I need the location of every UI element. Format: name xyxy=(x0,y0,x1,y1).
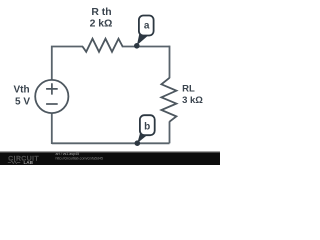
node a junction dot xyxy=(134,43,140,49)
svg-text:3 kΩ: 3 kΩ xyxy=(182,95,203,106)
svg-text:Vth: Vth xyxy=(13,85,29,96)
wire top-right segment xyxy=(122,46,170,48)
node b junction dot xyxy=(135,140,141,146)
node b callout tail xyxy=(137,131,147,143)
svg-text:R th: R th xyxy=(91,7,111,18)
svg-text:a: a xyxy=(144,21,150,32)
wire right vertical upper xyxy=(169,46,171,79)
svg-text:RL: RL xyxy=(182,83,195,94)
svg-text:LAB: LAB xyxy=(24,160,34,165)
voltage source V1 circle xyxy=(35,80,68,113)
node a callout tail xyxy=(137,32,147,45)
svg-text:htto://circuitlab.com/c/xfa5d4: htto://circuitlab.com/c/xfa5d45 xyxy=(56,156,104,160)
voltage source plus sign xyxy=(46,83,58,94)
watermark bar xyxy=(0,153,220,165)
node b callout box xyxy=(140,115,155,135)
wire right vertical lower xyxy=(169,121,171,143)
node a callout box xyxy=(139,16,154,36)
wire top-left segment xyxy=(52,47,83,81)
svg-text:2 kΩ: 2 kΩ xyxy=(90,19,113,30)
svg-text:b: b xyxy=(144,122,150,133)
wire bottom segment xyxy=(52,142,170,144)
resistor R th zigzag xyxy=(83,39,123,52)
svg-text:5 V: 5 V xyxy=(15,96,30,107)
resistor RL zigzag xyxy=(161,78,176,122)
wire source bottom vertical xyxy=(51,113,53,144)
voltage source minus sign xyxy=(46,103,58,105)
